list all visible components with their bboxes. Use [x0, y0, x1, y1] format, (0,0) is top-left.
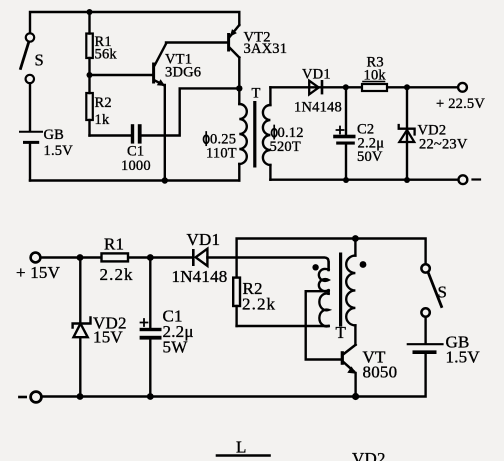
wire bottom rail [42, 354, 426, 397]
transistor VT2 3AX31 [227, 25, 287, 88]
node junction VT2 collector / primary [236, 85, 242, 91]
resistor R1 2.2k [100, 235, 134, 285]
node junction winding top rail [352, 235, 359, 242]
resistor R3 10k [346, 55, 407, 92]
battery GB 1.5V [408, 333, 481, 367]
node junction R1/R2/base [87, 72, 93, 78]
svg-text:S: S [438, 283, 448, 302]
svg-text:L: L [236, 438, 247, 457]
svg-text:1N4148: 1N4148 [294, 100, 342, 116]
svg-text:+ 15V: + 15V [16, 263, 61, 282]
transformer T feedback winding [319, 262, 329, 291]
node - output terminal [459, 175, 468, 184]
switch S [421, 264, 447, 317]
svg-text:1000: 1000 [121, 158, 151, 174]
node junction emitter/bottom rail [162, 177, 168, 183]
node junction R3/VD2 [404, 84, 410, 90]
svg-text:3DG6: 3DG6 [165, 65, 201, 81]
svg-text:R2: R2 [95, 95, 112, 111]
node - input terminal [31, 392, 42, 403]
label minus [473, 178, 481, 180]
capacitor C1 1000 [121, 124, 151, 174]
svg-text:R1: R1 [104, 235, 124, 254]
wire VT1 emitter down [164, 85, 166, 181]
svg-text:3AX31: 3AX31 [244, 41, 288, 57]
inductor L (partial) [217, 438, 270, 457]
label minus [19, 396, 25, 399]
svg-text:1N4148: 1N4148 [172, 267, 228, 286]
transformer T primary winding φ0.25 110T [204, 88, 247, 180]
node junction VD2/bottom [404, 177, 410, 183]
svg-text:8050: 8050 [363, 363, 398, 382]
node junction VD1/C2 [343, 84, 349, 90]
wire R2 top rail [237, 239, 426, 278]
diode VD1 1N4148 [172, 230, 228, 286]
svg-text:520T: 520T [270, 139, 301, 155]
svg-text:VD1: VD1 [187, 230, 221, 249]
node junction C1/bottom rail [147, 393, 154, 400]
resistor R1 56k [86, 12, 117, 75]
capacitor C2 2.2μ 50V [333, 87, 384, 180]
wire R2 to C1 [90, 134, 131, 136]
svg-text:GB: GB [44, 127, 65, 143]
svg-text:S: S [35, 51, 44, 70]
wire C1 to transformer primary top [142, 88, 240, 135]
transistor VT1 3DG6 [90, 43, 228, 87]
node junction top rail / R1 [87, 9, 93, 15]
svg-text:50V: 50V [357, 149, 383, 165]
svg-text:T: T [252, 86, 261, 102]
wire bottom rail secondary [270, 178, 458, 180]
wire bottom rail primary [30, 179, 239, 181]
wire switch to battery [424, 317, 426, 343]
svg-text:VD1: VD1 [302, 67, 331, 83]
svg-text:1.5V: 1.5V [44, 143, 74, 159]
wire VD1 to transformer feedback winding [207, 258, 328, 271]
node junction VD2 branch [77, 254, 84, 261]
svg-text:22~23V: 22~23V [419, 137, 468, 153]
svg-text:110T: 110T [206, 146, 237, 162]
node junction C2/bottom [343, 177, 349, 183]
node phasing dot feedback winding [312, 264, 318, 270]
transformer T secondary winding φ0.12 520T [263, 87, 304, 179]
wire feedback tap to base [306, 291, 341, 359]
svg-text:1k: 1k [95, 112, 110, 128]
zener diode VD2 22~23V [399, 87, 468, 180]
capacitor C1 2.2μ 5W [140, 258, 194, 397]
svg-text:VD2: VD2 [352, 449, 386, 461]
node junction C1 branch [147, 254, 154, 261]
wire top rail [30, 12, 239, 33]
svg-text:56k: 56k [95, 47, 118, 63]
diode VD1 1N4148 [294, 67, 342, 116]
node + output terminal [458, 83, 467, 92]
node junction VD2/bottom rail [77, 393, 84, 400]
svg-text:2.2k: 2.2k [100, 265, 134, 284]
zener diode VD2 15V [73, 258, 127, 397]
switch S [21, 33, 44, 83]
transformer T core [339, 253, 342, 327]
wire to + terminal [407, 86, 459, 88]
wire secondary top to VD1 [270, 86, 345, 88]
transistor VT 8050 [341, 345, 398, 397]
wire input rail [41, 256, 192, 258]
battery GB 1.5V [20, 127, 73, 181]
svg-text:+ 22.5V: + 22.5V [436, 96, 485, 112]
svg-text:2.2k: 2.2k [242, 295, 276, 314]
wire switch to battery [29, 83, 31, 130]
svg-text:1.5V: 1.5V [446, 348, 481, 367]
transformer T lower-left winding [327, 291, 329, 294]
resistor R2 1k [86, 75, 112, 136]
svg-text:15V: 15V [93, 328, 123, 347]
node phasing dot right winding [360, 261, 367, 268]
transformer T core [253, 101, 256, 168]
svg-text:T: T [336, 323, 347, 342]
svg-text:5W: 5W [163, 338, 189, 357]
node + input terminal [31, 253, 41, 263]
transformer T right winding [346, 239, 355, 345]
node junction emitter/bottom rail [352, 393, 359, 400]
resistor R2 2.2k [233, 278, 276, 326]
wire R2 bottom to winding bottom [237, 325, 329, 327]
